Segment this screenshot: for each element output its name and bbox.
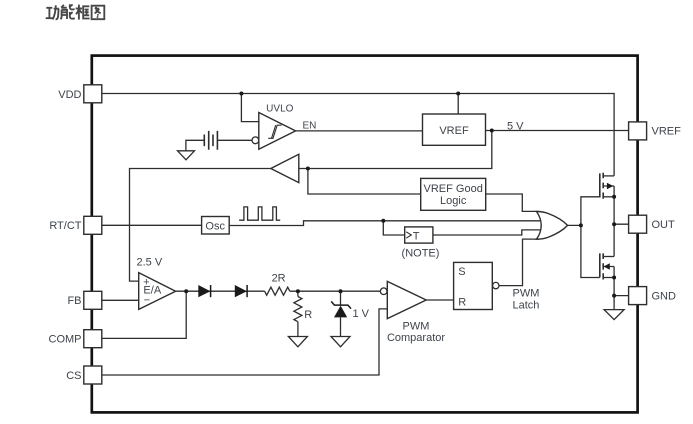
svg-text:VREF: VREF xyxy=(652,126,682,138)
svg-text:VREF Good: VREF Good xyxy=(424,183,483,195)
svg-text:OUT: OUT xyxy=(652,219,676,231)
svg-text:PWM: PWM xyxy=(403,320,430,332)
svg-text:(NOTE): (NOTE) xyxy=(402,248,440,260)
svg-text:PWM: PWM xyxy=(513,288,540,300)
svg-text:Comparator: Comparator xyxy=(387,332,445,344)
svg-text:2.5 V: 2.5 V xyxy=(137,256,163,268)
svg-text:FB: FB xyxy=(67,295,81,307)
svg-text:−: − xyxy=(144,294,150,306)
svg-text:5 V: 5 V xyxy=(507,120,524,132)
svg-text:Latch: Latch xyxy=(513,299,540,311)
svg-text:EN: EN xyxy=(303,121,317,132)
svg-text:T: T xyxy=(413,230,420,242)
svg-text:S: S xyxy=(458,266,465,278)
svg-text:Logic: Logic xyxy=(440,195,467,207)
svg-text:R: R xyxy=(304,309,312,321)
svg-text:COMP: COMP xyxy=(49,334,82,346)
svg-text:2R: 2R xyxy=(272,272,286,284)
svg-text:CS: CS xyxy=(66,370,81,382)
svg-text:R: R xyxy=(458,297,466,309)
svg-text:VREF: VREF xyxy=(439,125,469,137)
svg-text:RT/CT: RT/CT xyxy=(49,220,81,232)
svg-text:1 V: 1 V xyxy=(353,308,370,320)
svg-text:VDD: VDD xyxy=(58,89,81,101)
svg-text:GND: GND xyxy=(652,290,677,302)
svg-text:Osc: Osc xyxy=(205,220,225,232)
svg-text:UVLO: UVLO xyxy=(266,103,293,114)
